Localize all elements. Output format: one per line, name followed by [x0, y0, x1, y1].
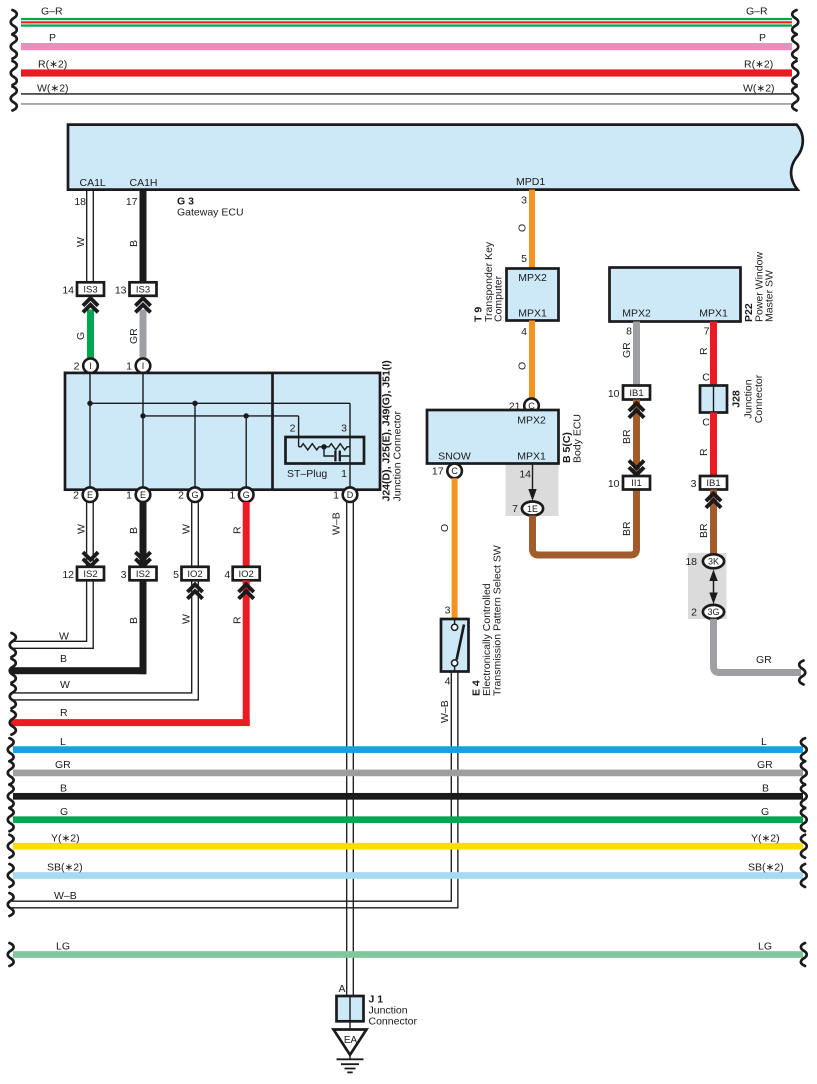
svg-text:MPX1: MPX1	[699, 308, 728, 320]
wire B bus	[8, 783, 807, 808]
svg-text:SB(∗2): SB(∗2)	[748, 862, 784, 874]
svg-text:1: 1	[229, 490, 235, 502]
wire GR to junction connector	[128, 310, 147, 359]
svg-text:W: W	[181, 614, 193, 624]
ST-Plug box	[286, 437, 365, 464]
svg-text:W(∗2): W(∗2)	[37, 83, 69, 95]
switch E4 Transmission Pattern Select SW	[441, 619, 469, 672]
svg-text:II1: II1	[631, 478, 642, 489]
svg-text:GR: GR	[55, 759, 71, 771]
svg-text:MPD1: MPD1	[516, 176, 545, 188]
wire G to junction connector	[75, 310, 94, 359]
connector IB1 pin 3	[691, 476, 727, 490]
ground symbol	[337, 1055, 364, 1073]
wire W-B from E4 pin 4 down and left to break	[12, 672, 458, 908]
wire W-B bus label and break	[8, 890, 77, 916]
svg-text:A: A	[338, 983, 345, 995]
wire GR from 3G to right break	[714, 619, 806, 685]
svg-text:Junction Connector: Junction Connector	[392, 411, 404, 502]
pin CA1L	[74, 177, 106, 208]
svg-text:W: W	[76, 524, 88, 534]
svg-text:E: E	[87, 490, 93, 500]
svg-text:I: I	[142, 361, 145, 371]
svg-text:5: 5	[173, 569, 179, 581]
svg-text:3: 3	[521, 195, 527, 207]
connector IS3 pin 14	[62, 282, 104, 296]
terminal 2 G	[178, 487, 202, 502]
terminal 2 3G	[691, 605, 724, 619]
svg-text:LG: LG	[758, 941, 772, 953]
svg-text:C: C	[702, 417, 710, 429]
wire GR bus	[8, 759, 807, 784]
capacitor inside ST-Plug	[324, 447, 350, 462]
svg-text:GR: GR	[757, 759, 773, 771]
svg-text:4: 4	[224, 569, 230, 581]
wire G-R bus (top)	[11, 6, 799, 35]
wire Y(*2) bus	[8, 832, 807, 857]
svg-text:8: 8	[626, 326, 632, 338]
svg-text:2: 2	[74, 361, 80, 373]
svg-text:G: G	[761, 806, 769, 818]
svg-text:W: W	[75, 237, 87, 247]
svg-text:LG: LG	[56, 941, 70, 953]
svg-text:IS3: IS3	[83, 284, 97, 295]
svg-text:E: E	[140, 490, 146, 500]
svg-text:Gateway ECU: Gateway ECU	[177, 207, 244, 219]
wire R from 1G	[232, 502, 250, 567]
chevrons below IB1 pin 10	[629, 403, 644, 417]
svg-text:10: 10	[608, 478, 620, 490]
wire L bus	[8, 736, 807, 761]
svg-text:IS2: IS2	[83, 569, 97, 580]
label P22 Power Window Master SW	[743, 252, 776, 322]
wire R from P22 MPX1 pin 7	[698, 322, 717, 386]
svg-text:EA: EA	[344, 1035, 358, 1046]
svg-text:B: B	[128, 240, 140, 247]
wire BR from 1E to II1	[533, 490, 637, 556]
svg-text:Y(∗2): Y(∗2)	[751, 832, 780, 844]
ST-Plug pin labels 2 and 3	[290, 423, 348, 435]
ECU box G3 Gateway ECU	[68, 125, 803, 190]
svg-text:CA1L: CA1L	[80, 177, 106, 189]
wire from J1 to ground EA	[349, 1021, 351, 1029]
svg-text:Computer: Computer	[493, 275, 505, 322]
svg-text:B: B	[128, 527, 140, 534]
svg-text:3: 3	[341, 423, 347, 435]
resistor pair inside ST-Plug	[299, 444, 350, 450]
svg-text:CA1H: CA1H	[130, 177, 158, 189]
svg-text:1E: 1E	[527, 504, 538, 514]
svg-text:R: R	[232, 616, 244, 624]
svg-text:12: 12	[62, 569, 74, 581]
pin MPD1	[516, 176, 545, 207]
svg-text:W(∗2): W(∗2)	[743, 83, 775, 95]
svg-text:SB(∗2): SB(∗2)	[47, 862, 83, 874]
svg-text:G: G	[75, 332, 87, 340]
svg-text:MPX2: MPX2	[517, 415, 546, 427]
svg-text:18: 18	[685, 556, 697, 568]
svg-text:R: R	[698, 347, 710, 355]
svg-text:1: 1	[341, 468, 347, 480]
svg-text:7: 7	[512, 503, 518, 515]
wire O from T9 MPX1 pin 4	[517, 321, 536, 399]
terminal 7 1E	[512, 502, 543, 516]
connector IO2 pin 5	[173, 567, 208, 581]
svg-text:1: 1	[333, 490, 339, 502]
junction connector J24/J25/J49/J51 box	[65, 373, 380, 490]
svg-text:W: W	[181, 524, 193, 534]
wire W below IS2 turning left	[10, 580, 93, 657]
wire internal vertical from 2G	[194, 403, 196, 490]
svg-text:BR: BR	[621, 429, 633, 444]
svg-text:3K: 3K	[708, 557, 719, 567]
chevrons below IO2 pin 4	[239, 584, 254, 598]
svg-text:L: L	[761, 736, 767, 748]
connector II1 pin 10	[608, 476, 650, 490]
svg-text:IB1: IB1	[706, 478, 720, 489]
wire W(*2) bus	[11, 83, 799, 111]
terminal 1 E	[126, 487, 150, 502]
svg-text:18: 18	[74, 196, 86, 208]
svg-text:GR: GR	[621, 342, 633, 358]
svg-text:Body ECU: Body ECU	[572, 414, 584, 463]
terminal 2 E	[73, 487, 97, 502]
svg-text:2: 2	[290, 423, 296, 435]
wire LG bus	[8, 941, 807, 966]
svg-text:3: 3	[691, 478, 697, 490]
svg-text:G–R: G–R	[746, 6, 768, 18]
svg-text:IO2: IO2	[187, 569, 202, 580]
svg-text:17: 17	[432, 466, 444, 478]
chevrons below IO2 pin 5	[187, 584, 202, 598]
wire B below IS2 turning left	[10, 580, 147, 682]
svg-text:R: R	[232, 526, 244, 534]
chevrons below IS3 (right)	[135, 298, 150, 312]
wire ST-plug pin 2 lead	[298, 416, 300, 447]
chevrons below IB1 pin 3	[706, 494, 721, 508]
junction connector J1	[337, 996, 364, 1021]
wire W from 2G	[181, 502, 199, 567]
svg-text:J28: J28	[731, 390, 743, 408]
svg-text:10: 10	[608, 388, 620, 400]
svg-text:3: 3	[445, 605, 451, 617]
svg-text:G: G	[60, 806, 68, 818]
terminal 21 C	[509, 399, 539, 414]
terminal 1 I	[126, 359, 150, 374]
svg-text:IS3: IS3	[136, 284, 150, 295]
gray highlight rect behind 14/1E	[506, 465, 559, 517]
wire B from 1E	[128, 502, 147, 567]
svg-text:L: L	[60, 736, 66, 748]
wire ST-plug pin 3 / pin 1 lead to D	[349, 403, 351, 490]
wire O from 17C to E4 pin 3	[439, 478, 458, 619]
svg-text:O: O	[439, 524, 451, 532]
wire SB(*2) bus	[8, 862, 807, 887]
svg-text:SNOW: SNOW	[438, 451, 471, 463]
wire W-B from 1D down to J1	[331, 502, 354, 996]
pin CA1H	[126, 177, 158, 208]
chevrons above IS2 pin 12	[83, 552, 98, 566]
svg-text:W–B: W–B	[439, 700, 451, 723]
svg-text:5: 5	[521, 253, 527, 265]
svg-text:W: W	[59, 631, 69, 643]
chevrons above II1 pin 10	[629, 461, 644, 475]
svg-text:BR: BR	[621, 521, 633, 536]
svg-text:P: P	[49, 32, 56, 44]
ST-Plug name and pin 1	[287, 468, 347, 480]
svg-text:2: 2	[691, 607, 697, 619]
svg-text:BR: BR	[698, 523, 710, 538]
svg-text:B: B	[60, 783, 67, 795]
wire internal horizontal lower	[143, 415, 299, 417]
svg-text:G–R: G–R	[41, 6, 63, 18]
label J24(D), J25(E), J49(G), J51(I) Junction Connector	[381, 360, 404, 501]
svg-text:MPX1: MPX1	[517, 451, 546, 463]
svg-text:O: O	[517, 362, 529, 370]
wire B from CA1H pin 17	[128, 190, 147, 283]
wire O from MPD1 pin 3	[517, 190, 536, 269]
wire G bus	[8, 806, 807, 831]
svg-text:G: G	[243, 490, 250, 500]
svg-text:W–B: W–B	[331, 512, 343, 535]
wire internal vertical from 1I to 1E	[142, 373, 144, 490]
svg-text:G: G	[191, 490, 198, 500]
terminal 18 3K	[685, 554, 724, 568]
svg-text:4: 4	[445, 676, 451, 688]
ECU box T9 Transponder Key Computer	[507, 269, 559, 321]
terminal 2 I	[74, 359, 98, 374]
wire GR from P22 MPX2 pin 8	[621, 322, 640, 386]
connector IB1 pin 10	[608, 386, 650, 401]
svg-text:ST–Plug: ST–Plug	[287, 468, 327, 480]
label E4 Electronically Controlled Transmission Pattern Select SW	[471, 545, 504, 696]
svg-text:O: O	[517, 224, 529, 232]
svg-text:C: C	[451, 466, 458, 476]
chevrons below IS3 (left)	[83, 298, 98, 312]
label J1 Junction Connector	[369, 994, 418, 1028]
svg-text:I: I	[89, 361, 92, 371]
svg-text:14: 14	[62, 285, 74, 297]
svg-text:GR: GR	[756, 654, 772, 666]
svg-text:MPX2: MPX2	[622, 308, 651, 320]
wire W below IO2 turning left	[10, 580, 199, 708]
label T9 Transponder Key Computer	[473, 241, 505, 322]
svg-text:2: 2	[178, 490, 184, 502]
ground EA triangle	[334, 1030, 367, 1055]
svg-text:1: 1	[126, 490, 132, 502]
svg-text:IB1: IB1	[629, 388, 643, 399]
terminal 17 C	[432, 464, 462, 479]
svg-text:Connector: Connector	[369, 1016, 418, 1028]
svg-text:Master SW: Master SW	[764, 270, 776, 322]
svg-text:W–B: W–B	[54, 890, 77, 902]
svg-text:2: 2	[73, 490, 79, 502]
junction node dots	[87, 401, 249, 419]
svg-text:IS2: IS2	[136, 569, 150, 580]
svg-text:7: 7	[704, 326, 710, 338]
wire W from CA1L pin 18	[75, 190, 93, 283]
svg-text:MPX2: MPX2	[518, 272, 547, 284]
svg-text:GR: GR	[128, 328, 140, 344]
svg-text:B: B	[60, 653, 67, 665]
wire W from 2E	[76, 502, 94, 567]
svg-text:IO2: IO2	[239, 569, 254, 580]
svg-text:R(∗2): R(∗2)	[38, 59, 67, 71]
svg-text:C: C	[702, 372, 710, 384]
svg-text:Connector: Connector	[753, 374, 765, 423]
label G 3 Gateway ECU	[177, 196, 244, 219]
svg-text:B: B	[128, 617, 140, 624]
junction connector J28	[700, 386, 727, 413]
svg-text:13: 13	[115, 285, 127, 297]
svg-text:4: 4	[521, 326, 527, 338]
wire R below IO2 turning left	[10, 580, 250, 734]
wire internal vertical from 2I to 2E	[89, 373, 91, 490]
connector IO2 pin 4	[224, 567, 259, 581]
svg-text:3: 3	[121, 569, 127, 581]
svg-text:D: D	[347, 490, 354, 500]
svg-text:R: R	[60, 707, 68, 719]
svg-text:Transmission Pattern Select SW: Transmission Pattern Select SW	[492, 545, 504, 696]
wire R(*2) bus	[11, 59, 799, 86]
svg-text:R: R	[698, 448, 710, 456]
terminal 1 D	[333, 487, 357, 502]
wire internal vertical from 1G	[245, 416, 247, 490]
wire BR from IB1 to 3K	[698, 490, 717, 555]
ECU box P22 Power Window Master SW	[610, 268, 741, 322]
svg-text:17: 17	[126, 196, 138, 208]
connector IS3 pin 13	[115, 282, 157, 296]
svg-text:3G: 3G	[707, 607, 719, 617]
wire internal horizontal upper	[90, 402, 350, 404]
ECU box B5(C) Body ECU	[427, 410, 559, 464]
terminal 1 G	[229, 487, 253, 502]
connector IS2 pin 12	[62, 567, 104, 581]
chevrons above IS2 pin 3	[135, 552, 150, 566]
svg-text:Y(∗2): Y(∗2)	[51, 832, 80, 844]
wire P bus	[11, 32, 799, 59]
wire BR between IB1 and II1	[621, 400, 640, 477]
svg-text:B: B	[762, 783, 769, 795]
svg-text:1: 1	[126, 361, 132, 373]
connector IS2 pin 3	[121, 567, 157, 581]
svg-text:P: P	[759, 32, 766, 44]
wire R from J28 to IB1 pin 3	[698, 413, 717, 477]
svg-text:R(∗2): R(∗2)	[744, 59, 773, 71]
label J28 Junction Connector	[731, 374, 766, 423]
svg-text:W: W	[60, 679, 70, 691]
wire MPX1 pin 14 arrow to 1E	[519, 464, 536, 501]
label B5(C) Body ECU	[561, 414, 584, 463]
gray highlight rect behind 3K/3G	[688, 553, 727, 619]
svg-text:14: 14	[519, 469, 531, 481]
svg-text:MPX1: MPX1	[518, 308, 547, 320]
arrow between 3K and 3G	[709, 570, 717, 605]
